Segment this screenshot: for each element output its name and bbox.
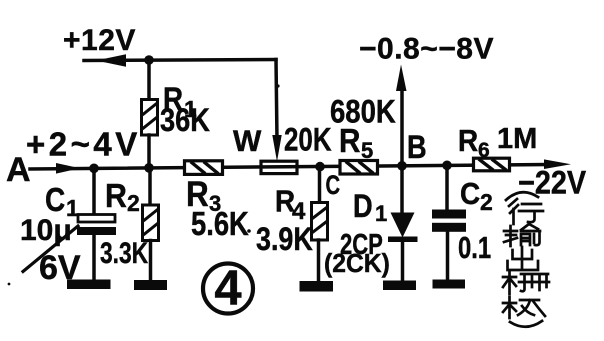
svg-text:R: R: [458, 124, 478, 159]
svg-text:−0.8~−8V: −0.8~−8V: [359, 33, 494, 66]
junction on +12V rail: [144, 55, 154, 65]
svg-text:6: 6: [478, 139, 490, 162]
svg-text:3.9K: 3.9K: [256, 222, 313, 258]
capacitor C2: [432, 210, 466, 232]
label D1 2CP (2CK): [324, 189, 390, 278]
svg-text:5.6K: 5.6K: [191, 207, 249, 243]
wire C1 to ground: [92, 235, 96, 281]
svg-text:(2CK): (2CK): [324, 249, 390, 278]
resistor R6: [474, 158, 510, 171]
svg-text:2: 2: [127, 190, 140, 216]
potentiometer W body: [261, 161, 297, 173]
label W 20K: [233, 123, 332, 158]
resistor R4: [312, 203, 328, 241]
char shu (output): [504, 224, 540, 246]
char xing (line): [509, 199, 543, 224]
arrow down into W wiper: [272, 135, 281, 162]
junction node B: [397, 161, 407, 171]
label C2 0.1: [458, 177, 493, 265]
label R3: [186, 176, 249, 243]
wire node to C1: [92, 168, 96, 215]
junction node C2: [442, 161, 452, 171]
label R4 3.9K: [256, 184, 313, 257]
svg-text:W: W: [233, 125, 262, 158]
resistor R2: [143, 205, 159, 241]
svg-text:6V: 6V: [39, 249, 81, 287]
main wire A to output: [30, 165, 548, 170]
wire node to R2: [148, 168, 152, 206]
label R2 3.3K: [100, 177, 148, 270]
label R6 1M: [458, 123, 537, 162]
svg-text:4: 4: [214, 262, 241, 316]
close paren (vertical): [510, 321, 542, 327]
junction node R1/R2: [144, 163, 154, 173]
wire node C to R4: [318, 167, 322, 204]
svg-text:−22V: −22V: [518, 165, 587, 201]
vertical note (line output grid): [503, 192, 549, 327]
char chu (out): [508, 247, 539, 270]
wire node B to D1: [400, 166, 404, 214]
junction node A-C1: [89, 164, 99, 174]
svg-text:36K: 36K: [160, 103, 210, 139]
open paren (vertical): [506, 192, 538, 200]
label C1 10u 6V: [20, 182, 81, 287]
ground (C1): [67, 280, 111, 290]
resistor R3: [185, 161, 223, 175]
svg-text:20K: 20K: [284, 123, 332, 158]
char ji (electrode): [503, 297, 545, 318]
wire D1 to ground: [401, 241, 405, 281]
junction node C: [315, 162, 325, 172]
wire R1 to node: [147, 135, 151, 168]
svg-text:B: B: [407, 130, 427, 166]
output arrow (right): [544, 159, 571, 169]
resistor R5: [340, 161, 378, 175]
polarity slash C1: [23, 226, 78, 272]
svg-text:10μ: 10μ: [20, 214, 72, 247]
svg-text:R: R: [105, 177, 127, 214]
wire C2 to ground: [446, 232, 450, 280]
ground (R2): [134, 280, 167, 290]
svg-text:+12V: +12V: [63, 24, 136, 57]
speck (scan noise): [8, 283, 11, 286]
svg-text:1M: 1M: [497, 123, 537, 155]
figure number circle 4: [203, 262, 253, 316]
svg-text:C: C: [460, 177, 480, 212]
wire from rail to R1: [147, 60, 151, 100]
svg-text:+2~4V: +2~4V: [26, 126, 141, 163]
svg-text:1: 1: [375, 201, 387, 226]
speck (scan noise): [276, 84, 279, 87]
char zha (grid): [503, 271, 549, 294]
ground (C2): [433, 280, 466, 289]
arrow up at B line: [396, 65, 407, 92]
svg-text:D: D: [353, 189, 373, 225]
label R5: [339, 123, 373, 163]
diode D1: [388, 213, 418, 243]
svg-text:R: R: [339, 123, 361, 160]
ground (R4): [300, 281, 334, 292]
arrow on A wire: [56, 163, 80, 174]
+12V rail wire: [84, 60, 277, 141]
ground (D1): [383, 281, 416, 291]
wire node to C2: [445, 165, 449, 211]
svg-text:5: 5: [361, 138, 373, 163]
svg-text:C: C: [326, 170, 341, 201]
svg-text:0.1: 0.1: [458, 230, 491, 265]
speck (scan noise): [247, 229, 251, 233]
wire R2 to ground: [149, 241, 153, 282]
label R1: [160, 82, 210, 138]
resistor R1: [142, 100, 158, 136]
capacitor C1: [77, 215, 116, 236]
svg-text:2: 2: [480, 189, 493, 215]
svg-text:3.3K: 3.3K: [100, 236, 148, 270]
+12V arrow (left): [96, 54, 126, 66]
wire node B up with arrow: [400, 80, 404, 166]
wire R4 to ground: [317, 240, 321, 281]
